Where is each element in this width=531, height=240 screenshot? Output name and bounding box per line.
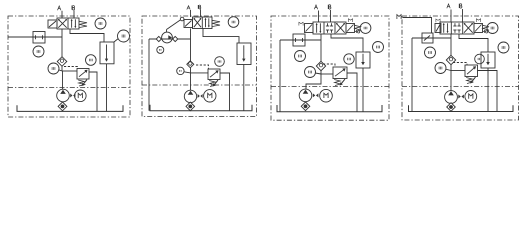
directional valve V2 body bbox=[193, 17, 213, 29]
solenoid label M bbox=[436, 19, 440, 22]
port label A bbox=[314, 5, 317, 9]
gauge G7 stub bbox=[184, 72, 191, 73]
hand pump lever bbox=[166, 30, 168, 33]
pump discharge pipe bbox=[62, 71, 64, 89]
oil tank T1 bbox=[17, 105, 123, 111]
pressure gauge G8 bbox=[215, 57, 225, 67]
return filter FR2 flow arrow bbox=[243, 45, 245, 59]
pressure gauge G12 bbox=[344, 54, 354, 64]
pump pressure pipe (P line) bbox=[61, 29, 63, 57]
pump P4 bbox=[445, 91, 458, 104]
valve V2 parallel-flow position bbox=[205, 18, 207, 27]
return filter FR4 body bbox=[481, 52, 495, 68]
return filter FR1 flow arrow bbox=[106, 45, 108, 60]
pressure gauge G7 bbox=[177, 67, 184, 74]
relief valve RV4 drain arrow bbox=[472, 77, 476, 81]
directional valve V4 body bbox=[440, 22, 474, 34]
check valve CV2a bbox=[156, 36, 161, 41]
hand pump line bbox=[149, 38, 191, 40]
relief outlet pipe to tank bbox=[478, 71, 498, 112]
pipe junction to relief valve bbox=[451, 70, 465, 72]
return spring V1 bbox=[79, 21, 87, 27]
check valve CV4 bbox=[446, 55, 455, 64]
relief outlet pipe to tank bbox=[220, 73, 230, 111]
pressure gauge G9 (valve) bbox=[360, 23, 371, 34]
solenoid actuator V3 right solenoid bbox=[346, 24, 355, 33]
return filter FR2 body bbox=[237, 43, 251, 65]
suction strainer F4 bbox=[447, 103, 456, 112]
relief pilot line (dashed) bbox=[196, 65, 209, 69]
return filter FR4 flow arrow bbox=[487, 54, 489, 63]
port label B bbox=[458, 4, 460, 8]
hand pump suction pipe bbox=[148, 39, 150, 111]
port label A bbox=[447, 4, 450, 8]
relief valve RV4 spring bbox=[466, 78, 472, 84]
suction strainer F3 bbox=[301, 102, 310, 111]
valve V4 parallel-flow position bbox=[443, 23, 445, 32]
solenoid label M bbox=[299, 22, 303, 25]
pressure gauge G15 bbox=[425, 47, 436, 58]
relief valve RV4 bbox=[465, 65, 478, 77]
gauge isolator valve S3 bbox=[293, 34, 305, 46]
panel 4 enclosure border (dash-dot) bbox=[402, 16, 519, 120]
relief valve RV3 drain arrow bbox=[341, 79, 345, 83]
return pipe to tank bbox=[362, 68, 364, 112]
pressure gauge G2 (return) bbox=[118, 30, 130, 42]
port A line bbox=[318, 11, 320, 23]
directional valve V1 body bbox=[57, 18, 79, 29]
pump P1 bbox=[57, 89, 70, 102]
gauge G11 stub bbox=[315, 73, 321, 74]
port label A bbox=[187, 6, 190, 10]
pressure gauge G16 bbox=[435, 63, 446, 74]
electric motor M4 bbox=[465, 91, 477, 103]
return pipe to tank bbox=[243, 65, 245, 111]
pressure gauge G10 bbox=[295, 51, 306, 62]
relief valve RV2 drain arrow bbox=[214, 80, 218, 84]
relief valve RV3 spring bbox=[334, 80, 340, 86]
directional valve V3 body bbox=[313, 22, 346, 34]
pressure gauge G11 bbox=[305, 67, 316, 78]
solenoid label 1b bbox=[484, 30, 486, 33]
panel 1 enclosure border (dash-dot) bbox=[8, 16, 130, 117]
return spring V2 bbox=[212, 20, 220, 26]
relief valve RV3 bbox=[333, 67, 347, 79]
pressure gauge G14 (valve) bbox=[487, 23, 498, 34]
pump pressure pipe (P line) bbox=[190, 29, 192, 62]
solenoid actuator V4 right solenoid bbox=[474, 24, 483, 33]
relief outlet pipe to tank bbox=[89, 72, 97, 111]
check valve CV2 bbox=[187, 61, 194, 68]
pressure gauge G18 bbox=[498, 42, 509, 53]
T return pipe bbox=[70, 29, 104, 42]
valve V1 crossed-flow position bbox=[58, 19, 66, 27]
pump pressure pipe (P line) bbox=[450, 34, 452, 56]
shaft coupling P1-M1 bbox=[70, 94, 72, 98]
electric motor M2 bbox=[204, 90, 216, 102]
check valve CV3 bbox=[316, 61, 325, 70]
electric motor M1 bbox=[75, 90, 87, 102]
hand pump HP1 bbox=[162, 32, 173, 43]
pipe check valve to junction bbox=[61, 66, 63, 71]
pump pressure pipe (P line) bbox=[320, 34, 322, 61]
pump P3 bbox=[299, 89, 312, 102]
gauge isolator valve S1 bbox=[33, 32, 45, 44]
valve V3 parallel-flow position bbox=[316, 23, 318, 32]
external gauge port label M bbox=[397, 15, 401, 19]
pressure gauge G13 bbox=[373, 42, 384, 53]
check valve CV1 bbox=[57, 57, 67, 67]
pipe junction to relief valve bbox=[321, 73, 333, 75]
solenoid actuator V2 solenoid bbox=[184, 20, 193, 28]
suction strainer F1 bbox=[58, 102, 67, 111]
pressure gauge G0 (relief setting) bbox=[86, 55, 97, 66]
gauge G2 stub bbox=[114, 39, 118, 43]
oil tank T3 bbox=[277, 105, 382, 112]
shaft coupling P2-M2 bbox=[198, 94, 200, 98]
port A line bbox=[190, 10, 192, 17]
relief valve RV1 spring bbox=[78, 80, 84, 86]
relief valve RV1 drain arrow bbox=[83, 80, 87, 84]
return filter FR1 body bbox=[100, 42, 114, 64]
solenoid label M bbox=[348, 19, 352, 22]
pressure gauge G3 bbox=[33, 46, 44, 57]
relief pilot line (dashed) bbox=[64, 67, 78, 69]
port label B bbox=[327, 5, 329, 9]
pressure gauge G6 bbox=[157, 46, 164, 53]
panel 3 manifold/tank divider (dash-dot) bbox=[271, 86, 389, 88]
port B line bbox=[462, 9, 464, 22]
pipe check valve to junction bbox=[320, 71, 322, 74]
gauge G4 stub bbox=[59, 70, 62, 71]
gauge branch pipe bbox=[280, 39, 321, 41]
panel 1 manifold/tank divider (dash-dot) bbox=[8, 87, 130, 89]
gauge G16 stub bbox=[446, 69, 451, 70]
port label A bbox=[58, 6, 61, 10]
T return pipe bbox=[331, 34, 363, 52]
tank sense pipe bbox=[411, 38, 413, 111]
pump discharge pipe bbox=[450, 71, 452, 91]
pipe junction to relief valve bbox=[191, 72, 209, 74]
panel 4 manifold/tank divider (dash-dot) bbox=[402, 86, 519, 88]
return spring V4 bbox=[483, 25, 490, 31]
oil tank T2 bbox=[150, 105, 252, 111]
valve V3 crossed-flow position bbox=[336, 23, 344, 32]
gauge branch pipe bbox=[412, 37, 451, 39]
valve V1 parallel-flow position bbox=[71, 19, 73, 27]
panel 2 enclosure border (dash-dot) bbox=[142, 16, 257, 117]
relief valve RV2 spring bbox=[209, 81, 215, 87]
pressure gauge G17 bbox=[475, 54, 485, 64]
relief valve RV2 bbox=[208, 69, 220, 80]
pump discharge pipe bbox=[306, 74, 321, 89]
pump discharge pipe bbox=[190, 73, 192, 90]
valve V4 crossed-flow position bbox=[464, 23, 473, 32]
relief valve RV1 bbox=[77, 69, 89, 80]
pump P2 bbox=[184, 90, 196, 102]
valve V3 blocked-centre position bbox=[327, 23, 329, 26]
port B line bbox=[73, 10, 75, 18]
valve V2 crossed-flow position bbox=[194, 18, 201, 27]
return filter FR3 body bbox=[356, 52, 370, 68]
gauge isolator valve S4 bbox=[422, 33, 433, 43]
P gauge branch pipe bbox=[8, 36, 62, 38]
port B line bbox=[200, 9, 202, 17]
solenoid actuator V4 left solenoid bbox=[435, 24, 441, 33]
pipe junction to relief valve bbox=[62, 70, 77, 72]
panel 2 manifold/tank divider (dash-dot) bbox=[142, 84, 257, 86]
T return pipe bbox=[459, 34, 488, 52]
oil tank T4 bbox=[409, 105, 514, 111]
electric motor M3 bbox=[320, 89, 333, 102]
port label B bbox=[71, 6, 73, 10]
solenoid label 1b bbox=[356, 30, 358, 33]
pressure gauge G4 bbox=[48, 63, 59, 74]
return pipe to tank bbox=[487, 68, 489, 111]
relief pilot line (dashed) bbox=[323, 64, 335, 67]
return spring V3 bbox=[355, 25, 361, 31]
pump suction pipe bbox=[62, 101, 64, 104]
return pipe to tank bbox=[106, 64, 108, 112]
pipe check valve to junction bbox=[190, 68, 192, 73]
panel 3 enclosure border (dash-dot) bbox=[271, 16, 389, 120]
shaft coupling P3-M3 bbox=[313, 93, 316, 97]
suction strainer F2 bbox=[186, 102, 195, 111]
shaft coupling P4-M4 bbox=[458, 95, 461, 99]
port B line bbox=[330, 10, 332, 22]
solenoid actuator V3 left solenoid bbox=[305, 24, 314, 33]
pressure gauge G5 (valve) bbox=[228, 17, 239, 28]
relief outlet pipe to tank bbox=[347, 73, 357, 112]
pipe check valve to junction bbox=[450, 65, 452, 71]
solenoid actuator V1 solenoid bbox=[48, 20, 57, 28]
relief pilot line (dashed) bbox=[453, 63, 467, 66]
external gauge pipe M bbox=[403, 18, 432, 34]
valve V4 blocked-centre position bbox=[454, 23, 456, 26]
port A line bbox=[61, 11, 63, 18]
solenoid label M bbox=[476, 19, 480, 22]
T return pipe bbox=[203, 29, 239, 44]
port A line bbox=[450, 10, 452, 23]
return filter FR3 flow arrow bbox=[362, 54, 364, 63]
pressure gauge G1 (valve) bbox=[95, 18, 106, 29]
check valve CV2b bbox=[173, 36, 178, 41]
port label B bbox=[197, 5, 199, 9]
tank sense pipe bbox=[279, 40, 281, 112]
